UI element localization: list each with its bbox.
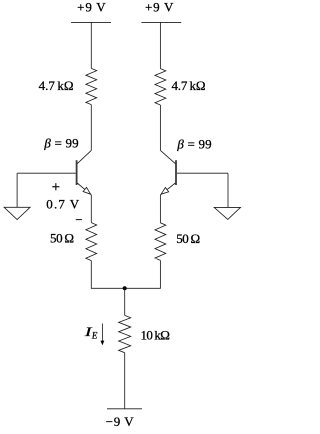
wire right 50ohm to common node	[125, 260, 161, 288]
svg-text:−: −	[75, 212, 82, 227]
+9V supply rail right	[141, 0, 181, 22]
wire left base down to ground	[16, 173, 18, 207]
svg-text:4.7 kΩ: 4.7 kΩ	[39, 78, 74, 93]
resistor 10 kOhm tail	[119, 315, 170, 352]
node common emitter junction	[123, 286, 127, 290]
svg-text:+: +	[52, 180, 60, 196]
resistor 50 Ohm left	[50, 223, 97, 261]
svg-text:10 kΩ: 10 kΩ	[140, 327, 170, 342]
svg-text:−9 V: −9 V	[106, 414, 134, 429]
resistor 4.7kOhm right	[155, 69, 206, 105]
svg-text:+9 V: +9 V	[145, 0, 174, 14]
wire right base	[177, 172, 228, 174]
wire right emitter down	[159, 195, 161, 223]
resistor 4.7kOhm left	[39, 68, 97, 104]
wire right resistor to transistor collector	[159, 105, 161, 150]
svg-text:β = 99: β = 99	[43, 136, 78, 151]
svg-text:0.7 V: 0.7 V	[46, 197, 79, 212]
wire left collector from rail	[90, 22, 92, 68]
wire node to tail resistor	[124, 288, 126, 315]
wire left emitter down	[90, 195, 92, 223]
wire right base down to ground	[227, 173, 229, 207]
ground left	[4, 207, 30, 219]
wire tail resistor to negative rail	[124, 353, 126, 409]
wire left base	[17, 172, 76, 174]
label IE with current arrow	[83, 324, 104, 346]
svg-text:β = 99: β = 99	[176, 136, 211, 151]
svg-text:50 Ω: 50 Ω	[176, 231, 200, 246]
svg-text:50 Ω: 50 Ω	[50, 230, 74, 245]
-9V supply rail bottom	[106, 409, 142, 429]
transistor Q2 (right, beta=99)	[160, 136, 211, 195]
svg-text:4.7 kΩ: 4.7 kΩ	[172, 78, 206, 93]
wire left 50ohm to common node	[91, 261, 124, 289]
wire left resistor to transistor collector	[90, 105, 92, 151]
svg-text:+9 V: +9 V	[77, 0, 106, 14]
ground right	[214, 207, 240, 219]
transistor Q1 (left, beta=99)	[43, 136, 91, 195]
resistor 50 Ohm right	[155, 223, 200, 261]
wire right collector from rail	[159, 22, 161, 68]
+9V supply rail left	[71, 0, 111, 22]
